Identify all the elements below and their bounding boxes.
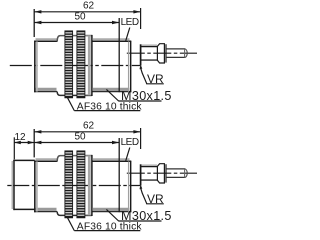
VR leader arrowhead <box>140 64 143 69</box>
connector stub end round <box>185 49 187 58</box>
b barrel bottom edge <box>34 211 57 213</box>
AF36 leader <box>67 97 74 110</box>
b tip face shading <box>11 161 13 209</box>
barrel bottom shading <box>36 88 57 91</box>
connector cylinder left edge <box>140 44 142 65</box>
dim 62 extension line left <box>33 9 35 37</box>
b M30x1.5 leader <box>106 209 118 221</box>
svg-text:LED: LED <box>121 137 139 148</box>
b thread top edge between nuts <box>73 155 77 157</box>
b dim 62 arrow left <box>34 130 41 133</box>
b thread bottom edge after nut2 <box>85 214 92 216</box>
b dim 50 arrow left <box>34 141 41 144</box>
dim 62 arrow right <box>133 10 140 13</box>
VR leader <box>141 69 147 84</box>
dim 50 line <box>34 22 119 24</box>
rear cap shading line <box>128 42 130 93</box>
connector cylinder top edge <box>141 46 158 48</box>
b tip top edge <box>13 159 34 161</box>
b connector stub bottom edge <box>166 176 185 178</box>
main centerline <box>10 65 140 67</box>
dim 50 arrow right <box>112 21 119 24</box>
b connector stub end cap line <box>184 169 186 178</box>
dim 62 line <box>34 11 140 13</box>
barrel front face <box>34 41 36 93</box>
svg-text:50: 50 <box>74 132 86 143</box>
b dim 12 line <box>14 142 34 144</box>
dim 62 arrow left <box>34 10 41 13</box>
svg-text:AF36 10 thick: AF36 10 thick <box>77 102 143 113</box>
b barrel bottom shading <box>36 208 57 211</box>
M30x1.5 underline <box>118 100 161 102</box>
b dim 50 line <box>34 142 119 144</box>
b dim 12 extension line left <box>13 137 15 159</box>
b connector cylinder bottom edge <box>141 179 158 181</box>
b dim 62 extension line left <box>33 129 35 157</box>
connector collar right edge <box>165 44 167 62</box>
nut 1 bottom cap <box>65 96 73 97</box>
barrel bottom edge <box>34 91 57 93</box>
AF36 underline <box>74 110 140 112</box>
nut 1 <box>65 31 73 98</box>
b barrel front face shading <box>36 162 38 212</box>
b barrel front face <box>34 161 36 213</box>
b thread right shoulder shading <box>88 156 91 215</box>
svg-text:12: 12 <box>14 132 26 143</box>
b main centerline <box>7 185 140 187</box>
rear cap line <box>118 18 120 92</box>
thread step left shoulder bottom <box>57 92 65 96</box>
svg-text:50: 50 <box>74 12 86 23</box>
rear face line <box>130 41 132 92</box>
thread step left shoulder top <box>57 36 65 42</box>
barrel top edge <box>34 40 57 42</box>
b dim 12 arrow right <box>28 141 35 145</box>
b connector cylinder top edge <box>141 166 158 168</box>
connector collar <box>157 44 164 63</box>
b nut 1 <box>65 151 73 218</box>
b connector stub end round <box>185 169 187 178</box>
b nut 1 bottom cap <box>65 216 73 217</box>
barrel top shading <box>36 38 58 40</box>
connector stub bottom edge <box>166 56 185 58</box>
b dim 12 arrow left <box>14 141 20 145</box>
svg-text:62: 62 <box>83 1 95 12</box>
b VR underline <box>146 203 164 205</box>
svg-text:VR: VR <box>147 72 164 86</box>
thread bottom edge after nut2 <box>85 94 92 96</box>
b dim 62 line <box>34 131 140 133</box>
dim 62 extension line right <box>140 8 142 29</box>
b thread top edge after nut2 <box>85 155 92 157</box>
b connector centerline <box>127 172 197 174</box>
b nut 2 <box>77 151 85 218</box>
b connector stub top edge <box>166 168 185 170</box>
b AF36 leader <box>67 217 74 230</box>
thread right shoulder shading <box>88 36 91 95</box>
b thread right end line <box>91 155 93 216</box>
b tip face <box>13 160 15 210</box>
thread right end line <box>91 35 93 96</box>
nut 2 <box>77 31 85 98</box>
b M30x1.5 underline <box>118 220 161 222</box>
LED leader <box>126 28 130 41</box>
barrel front face shading <box>36 42 38 92</box>
b LED leader <box>126 148 130 161</box>
thread bottom edge between nuts <box>73 94 77 96</box>
thread top edge between nuts <box>73 35 77 37</box>
b rear cap line <box>118 138 120 212</box>
b VR leader arrowhead <box>140 184 143 189</box>
b AF36 underline <box>74 230 140 232</box>
svg-text:62: 62 <box>83 121 95 132</box>
connector cylinder bottom edge <box>141 59 158 61</box>
b dim 62 extension line right <box>140 128 142 149</box>
VR underline <box>146 83 164 85</box>
nut 2 bottom cap <box>77 96 85 97</box>
dim 50 arrow left <box>34 21 41 24</box>
b dim 50 arrow right <box>112 141 119 144</box>
svg-text:LED: LED <box>121 17 139 28</box>
thread top edge after nut2 <box>85 35 92 37</box>
b thread bottom edge between nuts <box>73 214 77 216</box>
b tip bottom edge <box>13 208 34 210</box>
b thread step left shoulder bottom <box>57 212 65 216</box>
connector stub end cap line <box>184 49 186 58</box>
connector cylinder top shading <box>142 44 158 46</box>
connector stub top edge <box>166 48 185 50</box>
b VR leader <box>141 189 147 204</box>
svg-text:VR: VR <box>147 192 164 206</box>
b connector collar right edge <box>165 164 167 182</box>
b connector cylinder left edge <box>140 164 142 185</box>
b rear face line <box>130 161 132 212</box>
b rear cap shading line <box>128 162 130 213</box>
svg-text:AF36 10 thick: AF36 10 thick <box>77 222 143 233</box>
b connector collar <box>157 164 164 183</box>
b barrel top edge <box>34 160 57 162</box>
b dim 62 arrow right <box>133 130 140 133</box>
b nut 2 bottom cap <box>77 216 85 217</box>
b connector cylinder top shading <box>142 164 158 166</box>
M30x1.5 leader <box>106 89 118 101</box>
b barrel top shading <box>36 158 58 160</box>
b thread step left shoulder top <box>57 156 65 162</box>
connector centerline <box>127 52 197 54</box>
